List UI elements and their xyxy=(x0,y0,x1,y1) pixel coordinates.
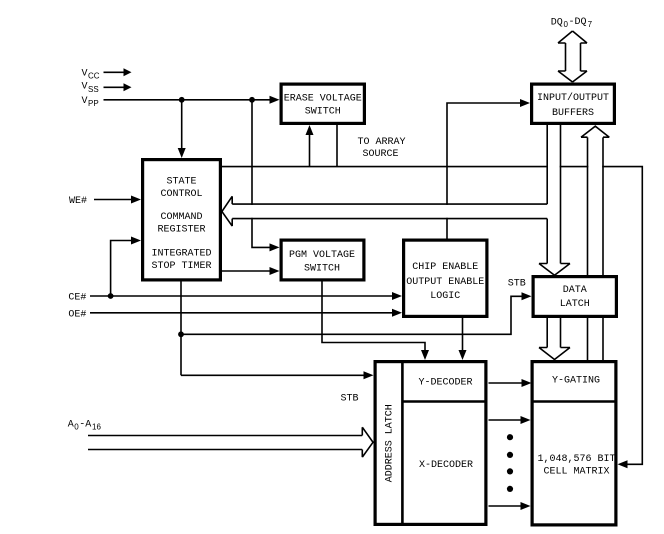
svg-text:DATA: DATA xyxy=(563,285,587,296)
dots ellipsis decoder to matrix 4 xyxy=(507,486,513,492)
svg-text:TO ARRAY: TO ARRAY xyxy=(357,137,405,148)
arrowhead y-decoder into y-gating xyxy=(522,379,532,387)
svg-text:DQ: DQ xyxy=(551,17,563,28)
svg-text:7: 7 xyxy=(588,20,593,29)
junction dot STB branch xyxy=(178,331,184,337)
svg-text:CHIP ENABLE: CHIP ENABLE xyxy=(412,262,478,273)
svg-text:CELL MATRIX: CELL MATRIX xyxy=(543,467,609,478)
svg-text:OE#: OE# xyxy=(68,310,86,321)
wire CE# input to chip enable logic xyxy=(90,295,393,297)
bus data latch to y-gating xyxy=(539,318,570,360)
box data latch xyxy=(533,277,616,317)
svg-text:V: V xyxy=(82,82,88,93)
wire state control to pgm voltage switch xyxy=(222,270,271,272)
arrowhead CE# branch into state control xyxy=(131,237,141,245)
arrowhead up into erase voltage switch bottom xyxy=(306,125,314,135)
box input/output buffers xyxy=(532,84,615,123)
svg-text:X-DECODER: X-DECODER xyxy=(419,460,473,471)
arrowhead pgm line into y-decoder top xyxy=(421,350,429,360)
svg-text:PP: PP xyxy=(88,99,99,108)
junction dot Vpp-state control xyxy=(179,97,185,103)
arrowhead Vpp into erase voltage switch xyxy=(270,96,280,104)
svg-text:V: V xyxy=(82,68,88,79)
dots ellipsis decoder to matrix 3 xyxy=(507,468,513,474)
svg-text:LATCH: LATCH xyxy=(560,299,590,310)
bus A0-A16 address input open arrow xyxy=(88,427,373,457)
arrowhead OE# into chip enable logic xyxy=(392,309,402,317)
arrowhead chip enable into input/output buffers xyxy=(520,99,530,107)
svg-text:-DQ: -DQ xyxy=(569,17,587,28)
wire CE# branch up to state control xyxy=(111,241,132,297)
junction dot Vpp-pgm xyxy=(249,97,255,103)
svg-text:V: V xyxy=(82,96,88,107)
wire chip enable logic up to input/output buffers xyxy=(447,103,521,239)
box y-gating / cell matrix xyxy=(532,362,616,525)
svg-text:SWITCH: SWITCH xyxy=(305,106,341,117)
svg-text:16: 16 xyxy=(92,423,101,432)
bus input/output buffers to command register and data latch xyxy=(222,125,570,275)
svg-text:ERASE VOLTAGE: ERASE VOLTAGE xyxy=(284,93,362,104)
box pgm voltage switch xyxy=(281,240,364,280)
svg-text:ADDRESS LATCH: ADDRESS LATCH xyxy=(385,404,396,482)
arrowhead x-decoder into cell matrix lower xyxy=(521,502,531,510)
wire to array source drop from erase switch xyxy=(336,125,338,167)
svg-text:1,048,576 BIT: 1,048,576 BIT xyxy=(537,454,615,465)
divider y-gating / cell matrix xyxy=(531,400,618,403)
box address latch / y-decoder / x-decoder xyxy=(375,362,486,525)
wire branch up into erase voltage switch xyxy=(309,134,311,167)
wire Vss arrow line xyxy=(104,86,125,88)
wire WE# input xyxy=(94,199,132,201)
box chip enable output enable logic xyxy=(404,240,487,316)
svg-text:SWITCH: SWITCH xyxy=(304,263,340,274)
wire pgm switch to y-decoder xyxy=(322,282,425,352)
arrowhead WE# into state control xyxy=(131,196,141,204)
arrowhead x-decoder into cell matrix upper xyxy=(521,416,531,424)
wire Vpp line to erase voltage switch xyxy=(104,99,271,101)
svg-text:CONTROL: CONTROL xyxy=(160,189,202,200)
svg-text:STOP TIMER: STOP TIMER xyxy=(151,261,211,272)
svg-text:CE#: CE# xyxy=(68,293,86,304)
svg-text:SOURCE: SOURCE xyxy=(362,149,398,160)
svg-text:OUTPUT ENABLE: OUTPUT ENABLE xyxy=(406,277,484,288)
svg-text:PGM VOLTAGE: PGM VOLTAGE xyxy=(289,250,355,261)
svg-text:BUFFERS: BUFFERS xyxy=(552,108,594,119)
arrowhead Vcc xyxy=(124,68,132,76)
wire state control bottom vertical xyxy=(180,282,182,376)
box state control command register integrated stop timer xyxy=(143,160,221,280)
wire state control to array source net xyxy=(222,167,643,465)
svg-text:INTEGRATED: INTEGRATED xyxy=(151,248,211,259)
svg-text:STATE: STATE xyxy=(166,177,196,188)
arrowhead Vss xyxy=(124,83,132,91)
bus DQ0-DQ7 bidirectional open arrow xyxy=(558,31,587,82)
divider y-decoder / x-decoder xyxy=(402,400,487,403)
svg-text:STB: STB xyxy=(341,394,359,405)
wire chip enable logic down to y-decoder xyxy=(462,318,464,351)
wire STB to address latch xyxy=(181,374,365,376)
dots ellipsis decoder to matrix 2 xyxy=(507,452,513,458)
arrowhead STB into data latch xyxy=(522,292,532,300)
wire Vcc arrow line xyxy=(104,71,125,73)
arrowhead into cell matrix right side xyxy=(618,460,628,468)
svg-text:Y-DECODER: Y-DECODER xyxy=(418,377,472,388)
arrowhead CE# into chip enable logic xyxy=(392,292,402,300)
svg-text:CC: CC xyxy=(88,72,100,81)
wire STB to data latch xyxy=(181,296,523,334)
svg-text:WE#: WE# xyxy=(69,196,87,207)
divider address latch strip xyxy=(401,360,404,526)
wire OE# input to chip enable logic xyxy=(90,312,393,314)
svg-text:A: A xyxy=(68,420,74,431)
svg-text:Y-GATING: Y-GATING xyxy=(552,375,600,386)
arrowhead Vpp branch into pgm voltage switch xyxy=(270,243,280,251)
wire Vpp branch down to state control xyxy=(181,100,183,149)
wire y-decoder to y-gating xyxy=(489,382,523,384)
wire x-decoder to cell matrix lower xyxy=(489,505,522,507)
wire x-decoder to cell matrix upper xyxy=(489,419,522,421)
bus y-gating up to input/output buffers xyxy=(581,126,609,360)
svg-text:-A: -A xyxy=(79,420,91,431)
svg-text:COMMAND: COMMAND xyxy=(160,212,202,223)
arrowhead chip enable into y-decoder top xyxy=(459,350,467,360)
arrowhead state control into pgm voltage switch xyxy=(270,267,280,275)
arrowhead STB into address latch xyxy=(364,371,374,379)
junction dot CE# branch xyxy=(108,293,114,299)
wire Vpp branch down to pgm voltage switch xyxy=(252,100,271,248)
arrowhead Vpp branch into state control top xyxy=(178,148,186,158)
box erase voltage switch xyxy=(281,84,364,123)
svg-text:STB: STB xyxy=(508,278,526,289)
svg-text:SS: SS xyxy=(88,85,99,94)
dots ellipsis decoder to matrix 1 xyxy=(507,434,513,440)
svg-text:INPUT/OUTPUT: INPUT/OUTPUT xyxy=(537,92,609,104)
svg-text:LOGIC: LOGIC xyxy=(430,291,460,302)
svg-text:REGISTER: REGISTER xyxy=(157,225,205,236)
